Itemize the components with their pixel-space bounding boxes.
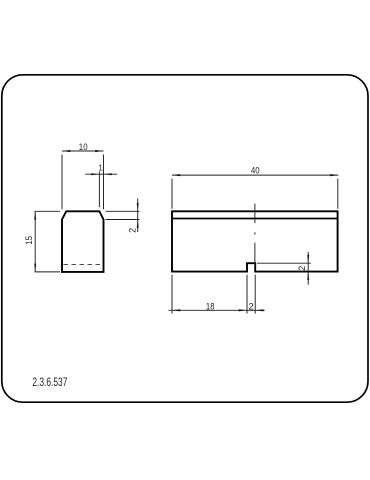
- dimension 40 line: [172, 174, 339, 176]
- dimension 10 extension lines: [62, 155, 104, 210]
- dimension 2 arrow bottom (outside): [137, 220, 139, 228]
- notch dim arrow bottom (outside): [307, 272, 309, 280]
- left part hidden dashed line: [64, 264, 103, 266]
- dimension 15 arrow top: [34, 211, 36, 219]
- dimension 40 arrow left: [172, 174, 180, 176]
- dimension 40 extension lines: [172, 179, 338, 209]
- dimension 15 arrow bottom: [34, 264, 36, 272]
- svg-text:10: 10: [79, 142, 88, 153]
- svg-text:40: 40: [251, 165, 260, 176]
- notch dim arrow top (outside): [307, 255, 309, 263]
- right part top band line: [172, 218, 338, 220]
- dimension 2 (chamfer depth) extension lines: [106, 211, 140, 219]
- dimension 1 line: [85, 173, 117, 175]
- dimension 18/2 line: [169, 309, 265, 311]
- dimension 18 arrow right: [239, 309, 247, 311]
- dimension 40 arrow right: [330, 174, 338, 176]
- left part outline: [62, 211, 104, 272]
- dimension 2 arrow top (outside): [137, 203, 139, 211]
- center line (dash-dot): [254, 204, 256, 267]
- dimension 15 extension lines: [35, 211, 61, 272]
- dimension 18 and 2 extension lines: [172, 275, 255, 314]
- svg-text:15: 15: [24, 236, 35, 245]
- dimension 2 (notch depth) extension line: [257, 262, 311, 264]
- svg-text:1: 1: [98, 163, 103, 172]
- svg-text:2: 2: [297, 266, 307, 271]
- right part outline with bottom notch: [172, 211, 338, 271]
- dimension 15 line: [34, 211, 36, 272]
- dimension 10 arrow right: [95, 150, 103, 152]
- dimension 2 (chamfer depth) line: [137, 199, 139, 233]
- dimension 1 arrow left (outside): [91, 173, 99, 175]
- svg-text:2: 2: [128, 228, 138, 233]
- svg-text:18: 18: [206, 302, 215, 313]
- dimension 10 arrow left: [62, 150, 70, 152]
- dimension 10 line: [62, 150, 104, 152]
- dimension 1 extension line: [98, 172, 100, 208]
- dimension 2 (notch depth) line: [307, 252, 309, 285]
- dimension 2 arrow right (outside): [255, 309, 263, 311]
- drawing sheet rounded border: [2, 75, 368, 402]
- svg-text:2: 2: [248, 302, 253, 313]
- svg-text:2.3.6.537: 2.3.6.537: [32, 375, 67, 389]
- dimension 18 arrow left: [172, 309, 180, 311]
- dimension 1 arrow right (outside): [104, 173, 112, 175]
